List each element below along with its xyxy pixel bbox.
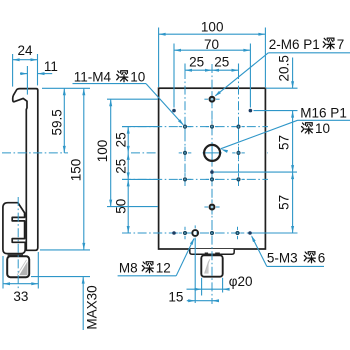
extension line M3 dot row right — [254, 110, 298, 112]
svg-text:24: 24 — [17, 43, 33, 58]
chain dim 25/25/50: dimension line with arrows — [127, 127, 129, 233]
svg-text:MAX30: MAX30 — [85, 285, 100, 329]
svg-text:25: 25 — [214, 55, 229, 70]
side view: carriage clamp outline — [3, 203, 25, 254]
hole M4 #3 (11-M4) — [237, 125, 240, 128]
dim 24: extension lines — [12, 54, 14, 87]
svg-text:59.5: 59.5 — [49, 109, 64, 135]
dim 70: extension lines — [173, 44, 175, 108]
front view: bottom flange — [190, 249, 234, 254]
svg-text:20.5: 20.5 — [277, 55, 292, 81]
main horizontal axis centerline (M16 axis), front-view segment — [131, 152, 268, 154]
dim 100 vertical: dimension line with arrows — [110, 99, 112, 206]
front view: main plate outline — [159, 88, 266, 249]
hole M8 with crosshair — [188, 232, 191, 234]
hole M3 #3 (5-M3) — [210, 170, 214, 174]
svg-text:M8: M8 — [119, 261, 138, 276]
dim 150: dimension line with arrows — [83, 88, 85, 250]
extension line plate top right — [266, 87, 298, 89]
centerline hole row C y=179.4 — [122, 178, 268, 180]
centerline hole row D y=233 — [122, 232, 297, 234]
chain dim extension row C — [122, 178, 158, 180]
svg-text:100: 100 — [95, 140, 110, 163]
dim 57 upper: dimension line with arrows — [292, 111, 294, 173]
svg-text:10: 10 — [130, 70, 145, 85]
leader 11-M4 — [73, 83, 147, 85]
chain dim extension row A — [122, 126, 158, 128]
svg-text:12: 12 — [156, 261, 171, 276]
side view: vertical centerline — [17, 197, 19, 290]
hole M16 center — [203, 152, 222, 154]
dim 100 top: dimension line with arrows — [159, 33, 266, 35]
extension line at knob bottom y=276.6 — [31, 276, 90, 278]
dim 15: dimension line with outside arrows — [187, 300, 219, 302]
label fuka10 (M16) — [302, 123, 313, 134]
leader 2-M6 — [268, 52, 350, 54]
svg-text:70: 70 — [204, 37, 219, 52]
svg-text:25: 25 — [189, 55, 204, 70]
svg-text:15: 15 — [168, 290, 183, 305]
svg-text:50: 50 — [114, 199, 129, 214]
svg-text:5-M3: 5-M3 — [267, 251, 298, 266]
hole M4 #7 (11-M4) — [211, 178, 214, 181]
svg-text:33: 33 — [13, 289, 28, 304]
dim 20.5: upper arrow line — [292, 58, 294, 89]
hole M4 #9 (11-M4) — [184, 232, 187, 235]
dim 15: extension line from M8 hole — [194, 239, 196, 303]
extension line at side-view top edge y=88 — [42, 87, 90, 89]
dim 100 top: extension lines — [158, 28, 160, 88]
svg-text:150: 150 — [68, 159, 83, 182]
svg-text:φ20: φ20 — [229, 274, 253, 289]
leader M8 — [176, 239, 194, 276]
front view: knob grip hatch wedge — [204, 260, 209, 274]
side view: knob shaft washer — [8, 254, 23, 256]
hole M3 #2 (5-M3) — [249, 109, 253, 113]
svg-text:7: 7 — [337, 37, 345, 52]
extension line mid M3 dot row y=172.1 — [214, 171, 297, 173]
dim phi20: extension lines — [201, 278, 203, 296]
side view: fixed body / rail profile — [13, 89, 38, 251]
front view: vertical centerline — [211, 64, 213, 304]
svg-text:57: 57 — [277, 195, 292, 210]
main horizontal axis centerline (M16 axis), side-view segment — [2, 152, 68, 154]
dim 25-25 top: dimension line with arrows — [185, 69, 239, 71]
hole M4 #4 (11-M4) — [184, 151, 187, 154]
extension line at rail bottom y=250 — [40, 249, 90, 251]
front view: knob shaft nubs — [205, 253, 208, 255]
centerline hole column x=185 — [184, 70, 186, 186]
dim phi20: dimension line with outside arrows — [187, 288, 227, 290]
hole M6 top (2-M6) with crosshair — [204, 98, 208, 100]
dim 11: extension line at claw center — [26, 66, 28, 95]
side view: knob body — [7, 256, 29, 277]
dim 59.5: dimension line with arrows — [63, 88, 65, 153]
svg-text:57: 57 — [277, 135, 292, 150]
svg-text:25: 25 — [114, 159, 129, 174]
hole M6 bottom (2-M6) with crosshair — [204, 206, 208, 208]
dim 100 vertical: extension lines — [107, 98, 158, 100]
dim MAX30: lower arrow line — [82, 277, 84, 330]
side view: knob grip hatch wedge — [19, 261, 27, 275]
hole M3 #5 (5-M3) — [248, 231, 252, 235]
hole M4 #8 (11-M4) — [237, 178, 240, 181]
svg-text:10: 10 — [315, 121, 330, 136]
dim 57 lower: dimension line with arrows — [292, 172, 294, 233]
svg-text:11: 11 — [44, 59, 58, 74]
dim 24: dimension line with arrows — [13, 59, 38, 61]
hole M4 #1 (11-M4) — [184, 125, 187, 128]
leader 5-M3 — [252, 236, 267, 266]
svg-text:25: 25 — [114, 132, 129, 147]
svg-text:11-M4: 11-M4 — [74, 70, 112, 85]
hole M4 #10 (11-M4) — [211, 232, 214, 235]
hole M4 #2 (11-M4) — [211, 125, 214, 128]
dim 33: extension lines — [2, 256, 4, 289]
extension line row D right — [254, 232, 298, 234]
hole M4 #5 (11-M4) — [237, 151, 240, 154]
leader M16 — [221, 120, 298, 149]
svg-text:M16 P1: M16 P1 — [300, 105, 347, 120]
dim 11: dimension line with outside arrows — [20, 73, 27, 75]
dim 33: dimension line with arrows — [3, 283, 38, 285]
centerline hole column x=238.5 — [238, 70, 240, 186]
dim 70: dimension line with arrows — [174, 49, 250, 51]
svg-text:6: 6 — [318, 251, 326, 266]
svg-text:100: 100 — [201, 20, 224, 35]
dim 25-25 top: extension lines — [184, 64, 186, 71]
svg-text:2-M6 P1: 2-M6 P1 — [269, 37, 320, 52]
centerline hole row A y=126.6 — [122, 126, 268, 128]
hole M3 #4 (5-M3) — [172, 231, 176, 235]
hole M3 #1 (5-M3) — [172, 109, 176, 113]
hole M4 #11 (11-M4) — [236, 232, 239, 235]
front view: knob body — [201, 255, 222, 276]
hole M4 #6 (11-M4) — [184, 178, 187, 181]
